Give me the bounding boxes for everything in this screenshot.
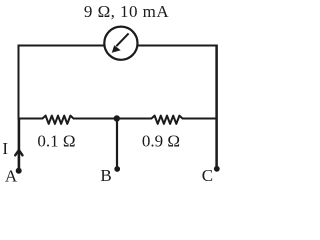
wire node B stub	[116, 119, 118, 169]
svg-text:I: I	[2, 139, 8, 158]
meter needle arrow	[112, 33, 129, 52]
terminal B dot	[114, 166, 120, 172]
resistor R1 0.1 ohm zigzag	[43, 116, 74, 124]
wire top rail	[18, 45, 217, 47]
junction node B dot on bottom rail	[114, 115, 120, 121]
label terminal B	[100, 166, 111, 185]
svg-text:0.1 Ω: 0.1 Ω	[37, 132, 75, 151]
label current I	[2, 139, 8, 158]
galvanometer G (meter circle)	[104, 27, 137, 60]
svg-text:B: B	[100, 166, 111, 185]
wire right vertical	[215, 45, 218, 169]
wire node A stub with current arrow I	[15, 119, 22, 170]
label terminal A	[5, 167, 18, 186]
label R1 value 0.1 ohm	[37, 132, 75, 151]
terminal C dot	[214, 166, 220, 172]
svg-text:0.9 Ω: 0.9 Ω	[142, 132, 180, 151]
label meter value 9 ohm, 10 mA	[84, 2, 169, 21]
wire bottom right segment	[182, 118, 217, 120]
wire left vertical	[18, 45, 20, 120]
terminal A dot	[16, 168, 22, 174]
label R2 value 0.9 ohm	[142, 132, 180, 151]
wire bottom middle segment	[73, 118, 152, 120]
resistor R2 0.9 ohm zigzag	[152, 116, 183, 124]
svg-text:C: C	[202, 166, 213, 185]
svg-text:9 Ω, 10 mA: 9 Ω, 10 mA	[84, 2, 169, 21]
label terminal C	[202, 166, 213, 185]
svg-text:A: A	[5, 167, 18, 186]
wire bottom left segment	[18, 118, 44, 120]
